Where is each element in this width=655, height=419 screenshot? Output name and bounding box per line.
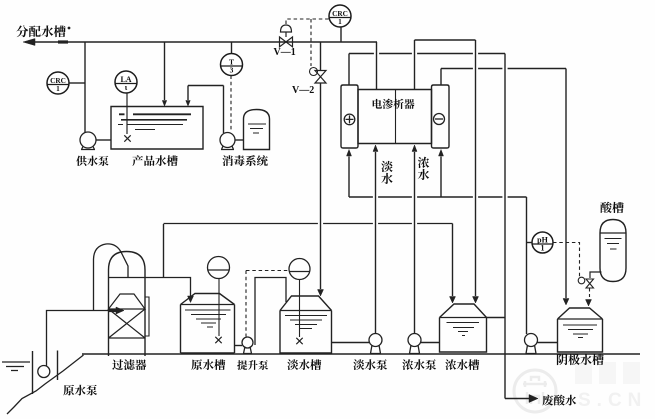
wire: main product line to distribution tank	[30, 41, 377, 43]
wire: lift pump suction	[235, 345, 243, 347]
conc tank roof	[440, 304, 487, 318]
svg-text:3: 3	[230, 65, 234, 74]
dot after label	[68, 27, 71, 30]
label: raw water pump 原水泵	[63, 385, 97, 396]
raw tank top edge	[181, 304, 235, 306]
label: concentrate tank 浓水槽	[445, 359, 479, 370]
valve V-1 body	[280, 37, 293, 47]
wire: recycle pipe upper	[320, 42, 322, 70]
wire: gauge control dashed	[246, 270, 289, 272]
wire: V-1 control dashed up	[286, 19, 329, 24]
vessel: 酸槽 acid tank	[600, 220, 626, 282]
cathode tank top edge	[558, 318, 603, 320]
svg-text:S.CN: S.CN	[578, 390, 647, 411]
arrow: feed diluate compartment	[373, 145, 378, 152]
arrow: feed cathode compartment	[439, 150, 444, 157]
water lines in conc tank	[447, 323, 480, 336]
wire: cathode drop to cathode tank	[565, 69, 567, 299]
wire: concentrate top run	[415, 39, 476, 41]
label: lift pump 提升泵	[237, 360, 268, 370]
label: concentrate pump 浓水泵	[402, 359, 436, 370]
wire: lift pump control dashed	[245, 271, 247, 337]
wire: metering pump suction	[235, 139, 243, 141]
wire: anode feed	[348, 157, 350, 198]
node: level sensor X in fresh tank	[296, 338, 302, 344]
wire: concentrate outlet riser	[414, 40, 416, 90]
wire: acid outlet	[590, 272, 602, 278]
wire: CRC riser	[340, 27, 342, 42]
wire: cathode top run	[441, 68, 566, 70]
instrument CRC-1 (left)	[47, 72, 69, 94]
electrode - symbol	[434, 114, 445, 125]
wire: cathode pump suction	[538, 342, 558, 344]
wire: pH control dashed	[553, 243, 580, 280]
wire: overflow to concentrate tank	[487, 317, 506, 319]
fresh tank roof	[280, 296, 332, 311]
pump: 提升泵 lift pump	[242, 337, 253, 354]
label: fresh water pump 淡水泵	[353, 359, 387, 370]
wire: diluate outlet riser	[376, 42, 378, 90]
cathode tank body	[558, 319, 603, 352]
arrow: into filter	[116, 307, 124, 314]
wire: product line drop into tank	[164, 42, 166, 100]
arrow: into concentrate tank (right)	[473, 297, 479, 304]
water lines in product tank	[118, 125, 183, 130]
label: cathode water tank 阴极水槽	[557, 354, 604, 365]
vessel seam	[600, 232, 626, 234]
valve V-2 actuator circle	[310, 68, 318, 76]
pump: 浓水泵 concentrate pump	[408, 334, 421, 354]
arrow: into cathode tank (left)	[563, 299, 569, 306]
well water surface	[2, 362, 30, 371]
wire: T3 riser	[231, 42, 233, 54]
wire: pH stub	[527, 242, 533, 244]
instrument CRC-1 (top)	[329, 5, 351, 27]
wire: fresh pump suction	[332, 342, 370, 344]
conc tank body	[440, 318, 487, 353]
pump: 淡水泵 fresh water pump	[369, 334, 382, 354]
valve actuator circle	[578, 277, 585, 284]
wire: control dashed branch to V-2	[310, 19, 312, 66]
wire: conc pump suction	[421, 342, 440, 344]
svg-text:V—1: V—1	[274, 47, 296, 58]
arrow: acid into cathode tank	[586, 300, 592, 307]
wire: electrode header down to pump	[526, 197, 528, 334]
label: fresh water tank 淡水槽	[287, 359, 321, 370]
valve V-1 actuator	[281, 25, 292, 37]
label: acid tank 酸槽	[600, 202, 623, 213]
wire: diluate feed riser	[375, 152, 377, 333]
filter distributor trapezoid	[109, 294, 146, 309]
label: waste acid water 废酸水	[542, 395, 576, 406]
wire: recycle pipe to fresh-water tank	[320, 83, 322, 289]
instrument T-3	[221, 54, 243, 76]
filter gooseneck inlet	[94, 244, 129, 311]
label: filter 过滤器	[112, 359, 146, 370]
wire: acid drop dashed	[589, 289, 591, 300]
wire: anode drain drop	[504, 54, 506, 399]
well wall right	[57, 351, 59, 381]
instrument: raw tank level gauge	[208, 257, 230, 279]
water lines in acid tank	[605, 239, 622, 250]
svg-text:1: 1	[56, 84, 60, 93]
label: disinfection system 消毒系统	[222, 155, 267, 166]
membrane stack box	[358, 90, 432, 144]
svg-text:1: 1	[338, 17, 342, 26]
well wall left	[32, 351, 34, 394]
electrode + symbol	[344, 114, 355, 125]
label: supply pump 供水泵	[76, 156, 108, 166]
arrow: into raw water tank	[188, 296, 194, 303]
valve V-2 body	[315, 71, 326, 84]
raw tank roof	[181, 294, 235, 305]
vessel: 消毒系统 disinfection vessel	[244, 110, 270, 150]
tank: 产品水槽 product water tank	[111, 107, 203, 150]
arrow: into concentrate tank (left)	[450, 297, 456, 304]
wire: dosing riser from metering pump	[223, 86, 225, 134]
wire: lift pump discharge	[255, 278, 286, 346]
wire: filter outlet line	[145, 277, 164, 279]
pump: 供水泵 supply pump	[80, 132, 96, 150]
label: distribution tank 分配水槽	[16, 25, 65, 37]
wire: LA stem	[126, 93, 128, 134]
water lines in disinfection vessel	[248, 124, 266, 133]
filter X media box	[109, 309, 146, 338]
pump: 消毒 metering pump	[220, 133, 235, 150]
arrow: feed concentrate compartment	[412, 145, 417, 152]
water lines in fresh tank	[285, 316, 327, 329]
filter side flange	[145, 297, 149, 336]
ground line	[82, 353, 640, 355]
wire: transfer line to concentrate tank	[164, 223, 453, 225]
watermark logo circle	[514, 370, 556, 412]
wire: anode top run	[349, 53, 505, 55]
water line 2 in product tank	[121, 119, 187, 121]
wire: cathode outlet riser	[440, 69, 442, 86]
valve: acid dosing valve	[586, 279, 594, 288]
node: level sensor X in raw tank	[215, 337, 221, 343]
cathode tank roof	[558, 308, 603, 319]
arrow: into fresh-water tank roof	[318, 290, 324, 297]
wire: electrode feed header	[349, 196, 527, 198]
wire: riser from supply pump	[84, 42, 86, 133]
fresh tank top edge	[280, 310, 332, 312]
wire: gauge stem	[218, 279, 220, 337]
wire: transfer drop	[452, 224, 454, 297]
water lines in cathode tank	[563, 325, 597, 338]
instrument pH	[532, 232, 553, 253]
label: concentrate 浓水 (vertical)	[418, 157, 429, 180]
wire: concentrate drop to tank	[475, 40, 477, 296]
wire: CRC-1 stub	[69, 82, 85, 84]
arrow: waste acid water out	[529, 395, 538, 403]
label: diluate 淡水 (vertical)	[381, 161, 393, 184]
water lines in raw tank	[185, 310, 231, 327]
wire: anode outlet riser	[348, 54, 350, 86]
instrument: fresh tank level gauge	[289, 259, 310, 280]
filter internal level line	[109, 277, 146, 279]
raw tank body	[181, 305, 235, 354]
ground slope hatch	[7, 355, 84, 414]
label: product tank 产品水槽	[132, 155, 178, 166]
arrow blob at filter inlet	[109, 309, 117, 312]
svg-text:1: 1	[541, 243, 545, 252]
arrow: second tick on main line	[58, 40, 68, 43]
wire: raw tank inlet	[164, 278, 191, 298]
conc tank top edge	[440, 317, 487, 319]
wire: cathode feed	[440, 157, 442, 198]
wire: raw water suction riser	[47, 311, 118, 367]
water line main in product tank	[119, 113, 191, 115]
wire: T3 control dashed to metering pump	[230, 76, 232, 132]
fresh tank body	[280, 311, 332, 354]
wire: gauge stem 2	[299, 280, 301, 338]
instrument LA level alarm	[115, 71, 137, 93]
electrode box anode	[341, 85, 358, 148]
wire: dosing drop into tank	[187, 86, 189, 101]
wire: stack center divider	[395, 90, 397, 144]
wire: concentrate feed riser	[414, 152, 416, 333]
node: level sensor X in product tank	[124, 135, 130, 141]
arrow: feed anode compartment	[347, 150, 352, 157]
svg-text:V—2: V—2	[292, 85, 314, 96]
wire: drain horizontal	[505, 398, 529, 400]
electrode box cathode	[432, 85, 450, 148]
wire: dosing header	[188, 85, 224, 87]
filter shell	[109, 252, 146, 357]
label: raw water tank 原水槽	[191, 359, 225, 370]
wire: supply pump suction from product tank	[96, 139, 111, 141]
wire: outlet up-leg	[163, 224, 165, 278]
arrow: into product tank (right)	[186, 101, 191, 107]
label: electrodialyzer 电渗析器	[373, 99, 415, 109]
pump: 原水泵 raw water pump	[38, 366, 50, 378]
arrow: into product tank (left)	[162, 101, 167, 107]
pump: 极水泵 electrode water pump	[525, 334, 538, 354]
arrow: to distribution tank	[23, 39, 35, 46]
